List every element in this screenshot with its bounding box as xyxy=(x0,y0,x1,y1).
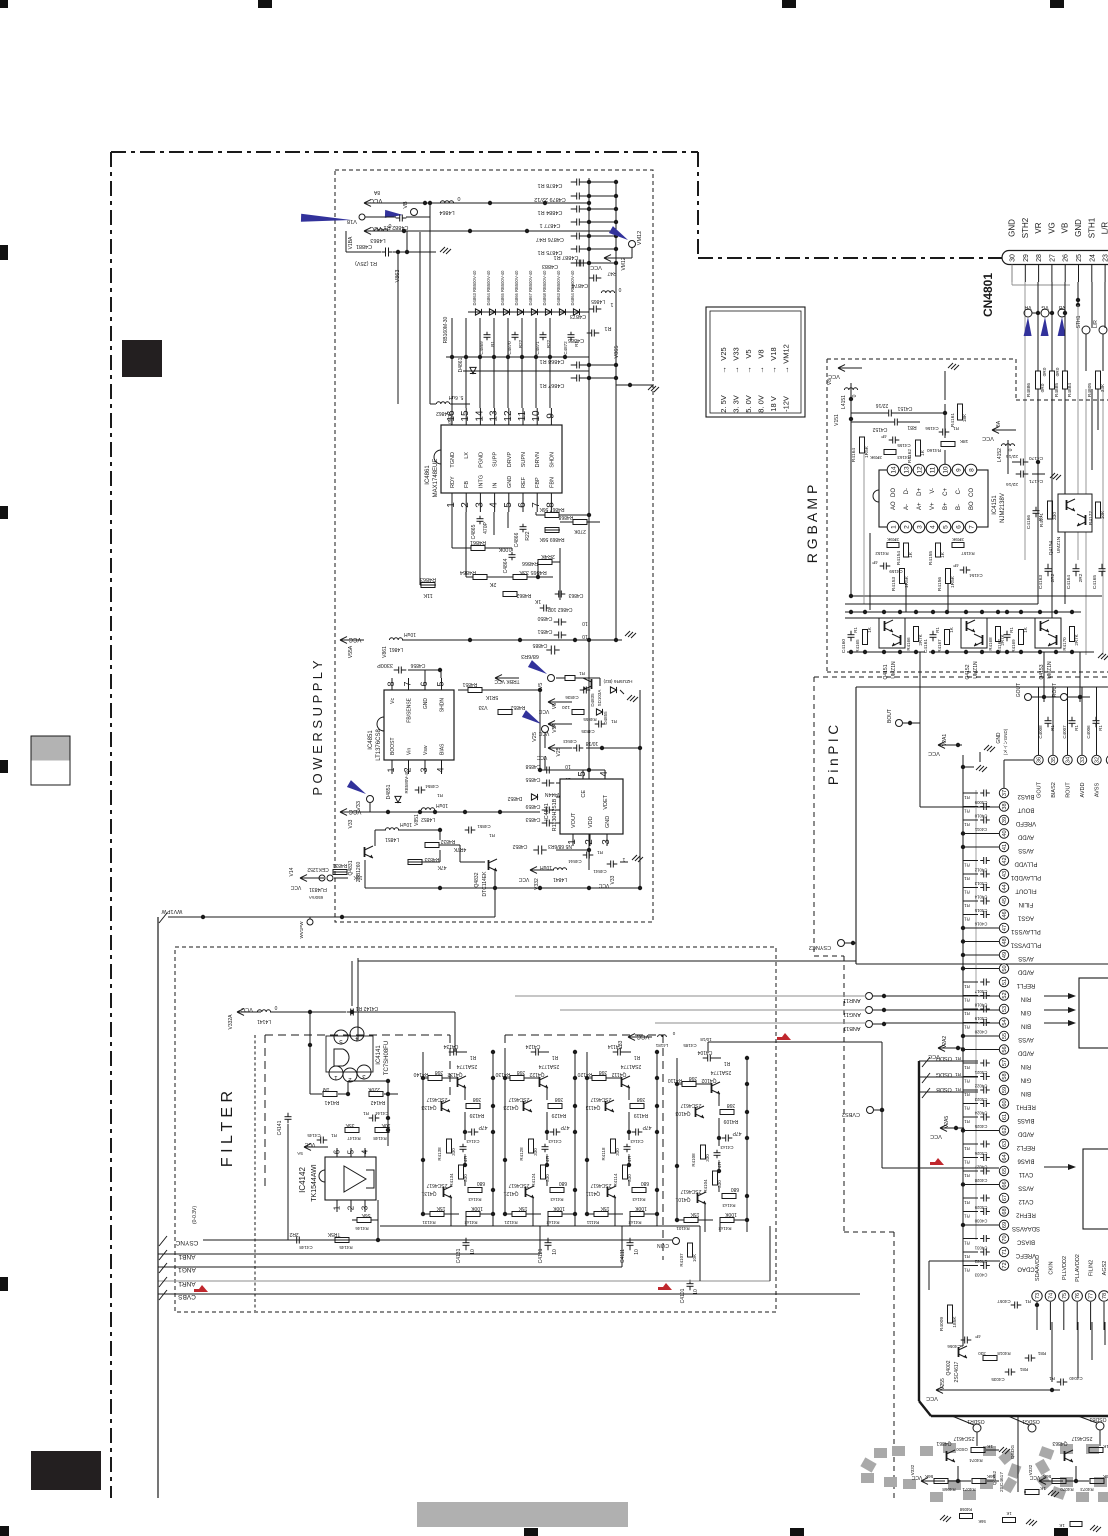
svg-text:R4114: R4114 xyxy=(613,1173,618,1186)
capacitor C4856 3300P xyxy=(398,667,400,674)
node VR xyxy=(1024,309,1032,317)
OSD signal taps xyxy=(919,1060,978,1062)
svg-text:FB: FB xyxy=(464,481,470,488)
svg-text:RIN: RIN xyxy=(1021,1063,1031,1069)
capacitor C4142 R1 xyxy=(350,1009,352,1016)
capacitor C4101 10 xyxy=(687,1283,694,1285)
gray highlight dashes cluster 2 xyxy=(1039,1446,1055,1460)
svg-text:D4855: D4855 xyxy=(603,711,608,725)
capacitor C4019 xyxy=(983,1006,985,1013)
svg-text:C4020: C4020 xyxy=(974,1030,987,1035)
svg-text:C4111: C4111 xyxy=(620,1249,626,1263)
svg-text:GND: GND xyxy=(423,698,429,710)
svg-text:R4110: R4110 xyxy=(668,1077,683,1083)
svg-text:62: 62 xyxy=(1002,1127,1008,1133)
top row pins 36-31 xyxy=(1034,755,1043,764)
svg-text:C4876 R47: C4876 R47 xyxy=(536,236,564,242)
svg-text:C4885: C4885 xyxy=(532,642,547,648)
resistor R4162 1K vertical xyxy=(916,440,921,456)
svg-text:TC7SH08FU: TC7SH08FU xyxy=(384,1041,390,1075)
resistor R4833 47K xyxy=(408,860,422,865)
IC4141 gate symbol xyxy=(334,1049,349,1066)
IC4151 pin 3 xyxy=(913,521,925,533)
svg-text:R4138: R4138 xyxy=(437,1147,442,1161)
svg-text:Q4121: Q4121 xyxy=(503,1190,518,1196)
junction row under diodes xyxy=(446,356,589,358)
resistor 3R9K R4157 xyxy=(952,543,964,548)
svg-text:SUPN: SUPN xyxy=(521,452,527,467)
flag marker blue 1 xyxy=(301,214,351,222)
resistor R4147 35K xyxy=(345,1128,359,1133)
svg-text:15K: 15K xyxy=(436,1205,446,1211)
svg-text:15K: 15K xyxy=(518,1205,528,1211)
svg-text:C4021: C4021 xyxy=(974,1070,987,1075)
IC4151 pin 14 xyxy=(887,464,899,476)
capacitor C4152 R81 xyxy=(894,419,896,426)
svg-text:2R7K: 2R7K xyxy=(1074,634,1079,645)
svg-text:3: 3 xyxy=(474,502,485,508)
svg-text:AVSS: AVSS xyxy=(1018,955,1034,961)
svg-text:34: 34 xyxy=(1066,757,1072,763)
signal tag CSYNC xyxy=(159,1236,167,1246)
svg-text:2R2: 2R2 xyxy=(1078,573,1084,582)
svg-text:R1: R1 xyxy=(964,795,970,800)
capacitor C4886 xyxy=(591,330,593,337)
svg-text:R1: R1 xyxy=(964,1025,970,1030)
svg-text:V8: V8 xyxy=(827,379,833,385)
IC4861 pin 4 xyxy=(494,493,496,512)
svg-text:C4844: C4844 xyxy=(568,859,582,864)
IC4151 pin 9 xyxy=(952,464,964,476)
pinp top rail xyxy=(856,686,1108,688)
svg-text:15K: 15K xyxy=(690,1211,700,1217)
svg-text:B-: B- xyxy=(956,504,962,510)
long lines RIN GIN BIN xyxy=(884,995,1000,997)
capacitor C4166 R1 xyxy=(1033,510,1040,512)
node L/R xyxy=(1099,326,1107,334)
capacitor C4141 xyxy=(285,1116,292,1118)
svg-text:2SA1774: 2SA1774 xyxy=(538,1063,559,1069)
svg-text:1K: 1K xyxy=(1039,1485,1046,1491)
svg-text:C4160: C4160 xyxy=(841,639,847,653)
svg-text:VCC: VCC xyxy=(369,197,382,203)
resistor R4155 1K vertical xyxy=(936,543,941,557)
svg-text:V332A: V332A xyxy=(228,1014,234,1030)
P-in-P IC pin 59 BIN xyxy=(999,1085,1008,1094)
svg-text:C4877 1: C4877 1 xyxy=(540,222,561,228)
svg-text:BIASC: BIASC xyxy=(1016,1239,1035,1245)
op-amp IC4861 MAX1748EUE body xyxy=(441,425,562,493)
svg-text:R81: R81 xyxy=(907,424,916,430)
svg-text:27: 27 xyxy=(1049,254,1056,262)
svg-text:C4040: C4040 xyxy=(1069,1376,1083,1381)
inductor L4151 0 xyxy=(844,388,857,390)
svg-text:3R9K: 3R9K xyxy=(951,536,964,542)
svg-text:0: 0 xyxy=(388,222,391,228)
svg-text:C4164: C4164 xyxy=(1066,575,1072,589)
svg-text:0: 0 xyxy=(1008,448,1014,451)
wire left drop xyxy=(429,217,431,404)
svg-text:V5: V5 xyxy=(538,683,544,690)
svg-text:C4859: C4859 xyxy=(525,803,540,809)
svg-text:VCC: VCC xyxy=(828,373,840,379)
svg-text:L4861: L4861 xyxy=(389,646,403,652)
svg-text:R1: R1 xyxy=(955,1087,961,1092)
svg-text:D4863 RB500V-40: D4863 RB500V-40 xyxy=(556,270,561,306)
svg-text:UMZ1N: UMZ1N xyxy=(1047,661,1053,679)
svg-text:2: 2 xyxy=(347,1205,356,1210)
svg-text:35: 35 xyxy=(1051,757,1057,763)
OSD output node OSDR1 xyxy=(973,1424,981,1432)
svg-text:C4166: C4166 xyxy=(1026,515,1032,529)
svg-text:GND: GND xyxy=(1008,219,1017,237)
svg-text:TRBK VCC: TRBK VCC xyxy=(494,678,520,684)
VCC V255 xyxy=(936,1389,960,1391)
svg-text:ANG1: ANG1 xyxy=(178,1266,196,1273)
svg-text:C4142 R1: C4142 R1 xyxy=(356,1005,379,1011)
svg-text:C4031: C4031 xyxy=(974,1246,987,1251)
svg-text:R4142: R4142 xyxy=(370,1099,385,1105)
svg-text:RDY: RDY xyxy=(450,476,456,488)
IC4151 pin 12 xyxy=(913,464,925,476)
resistor 1K R4169 vertical xyxy=(1019,630,1024,645)
IC4142 pin 6 xyxy=(336,1148,338,1157)
svg-text:C4853: C4853 xyxy=(525,816,540,822)
right rail of IC4851 section xyxy=(588,640,590,870)
ground rgb bottom xyxy=(1098,653,1108,660)
diode group D4863-D4868 RB500V-40 xyxy=(475,309,481,315)
svg-text:GOUT: GOUT xyxy=(1037,781,1043,798)
resistor R4009 185K vertical xyxy=(948,1305,953,1323)
resistor R4110 398 xyxy=(682,1082,696,1087)
svg-text:IC4141: IC4141 xyxy=(376,1045,382,1065)
capacitor 47P xyxy=(635,1129,637,1136)
resistor R4862 1K xyxy=(503,592,517,597)
wires below IC xyxy=(451,512,453,545)
svg-text:D4851: D4851 xyxy=(386,784,392,799)
svg-text:74: 74 xyxy=(1048,1293,1054,1299)
wires L4152 xyxy=(1007,440,1009,456)
svg-text:398: 398 xyxy=(517,1069,526,1075)
svg-text:470P: 470P xyxy=(483,522,489,534)
inductor L4852 10uH xyxy=(421,808,434,810)
registration mark left 4 xyxy=(0,1277,8,1291)
IC4151 pin 6 xyxy=(952,521,964,533)
svg-text:R4108: R4108 xyxy=(691,1153,696,1167)
svg-text:25: 25 xyxy=(1076,254,1083,262)
IC4151 pin 7 xyxy=(965,521,977,533)
svg-text:100K: 100K xyxy=(498,546,511,552)
svg-text:AVDD: AVDD xyxy=(1017,1131,1034,1137)
svg-text:VG: VG xyxy=(1047,222,1056,234)
capacitor C4144 R1 xyxy=(372,1115,374,1122)
svg-text:R4164: R4164 xyxy=(851,448,857,462)
svg-text:R4147: R4147 xyxy=(347,1136,361,1141)
svg-text:GND: GND xyxy=(507,476,513,488)
svg-text:R4864: R4864 xyxy=(460,569,476,575)
transistor Q4132 2SA1774 xyxy=(457,1077,459,1087)
svg-text:R4068: R4068 xyxy=(942,1487,956,1492)
VCC V5 entry xyxy=(548,701,572,703)
IC4851 pin 3 xyxy=(424,760,426,774)
svg-text:DO: DO xyxy=(891,488,897,497)
svg-text:C4858: C4858 xyxy=(525,763,540,769)
svg-text:R4855: R4855 xyxy=(583,717,597,722)
resistor R4153 1R5K vertical xyxy=(900,569,905,584)
svg-text:39: 39 xyxy=(1002,817,1008,823)
svg-text:R4862: R4862 xyxy=(516,592,531,598)
svg-text:C4154: C4154 xyxy=(969,573,983,578)
strip wires xyxy=(423,1077,428,1079)
P-in-P IC pin 55 AVSS xyxy=(999,1031,1008,1040)
svg-text:R4129: R4129 xyxy=(551,1112,566,1118)
IC4861 pin 5 xyxy=(508,493,510,512)
svg-text:2K: 2K xyxy=(489,581,496,587)
svg-text:D4864 RB500V-40: D4864 RB500V-40 xyxy=(570,270,575,306)
svg-text:V5: V5 xyxy=(552,703,558,709)
capacitor C4031 xyxy=(983,1235,985,1242)
capacitor C4104 R1 xyxy=(707,1055,709,1062)
svg-text:R4152: R4152 xyxy=(875,551,889,556)
svg-text:R1: R1 xyxy=(964,876,970,881)
svg-text:ANR1: ANR1 xyxy=(178,1280,196,1287)
VCC V8 entry xyxy=(838,367,862,369)
IC4142 opamp triangle xyxy=(344,1166,366,1192)
diagonals from bus xyxy=(952,1416,974,1425)
inductor L4181 xyxy=(658,1035,667,1037)
svg-text:5A: 5A xyxy=(297,1151,303,1156)
resistor 1K right xyxy=(1089,1448,1103,1453)
svg-text:0: 0 xyxy=(618,286,621,292)
svg-text:→: → xyxy=(719,366,728,374)
svg-text:2R2: 2R2 xyxy=(1050,573,1056,582)
strip wires xyxy=(505,1077,510,1079)
outer dash-dot frame to connector xyxy=(698,257,1002,259)
svg-text:IC4151: IC4151 xyxy=(992,495,998,515)
svg-text:3R9K: 3R9K xyxy=(869,454,882,460)
svg-text:C4015: C4015 xyxy=(974,908,987,913)
IC4851 pin 5 xyxy=(441,678,443,690)
svg-text:10uH: 10uH xyxy=(540,864,552,870)
inductor L4841 10uH xyxy=(553,868,566,870)
svg-text:8A: 8A xyxy=(373,189,380,195)
svg-text:R1: R1 xyxy=(611,719,617,724)
svg-text:C4131: C4131 xyxy=(456,1248,462,1263)
transistor Q4133 2SC4617 xyxy=(441,1101,443,1111)
capacitor C4159 4P xyxy=(883,563,885,570)
svg-text:R4120: R4120 xyxy=(577,1071,592,1077)
P-in-P IC pin 64 BIAS6 xyxy=(999,1153,1008,1162)
capacitor C4027 xyxy=(983,1154,985,1161)
svg-text:V2A5: V2A5 xyxy=(944,1116,950,1128)
transistor Q4103 2SC4617 xyxy=(695,1107,697,1117)
svg-text:R1: R1 xyxy=(1074,725,1079,731)
resistor R4886 0R0 xyxy=(1036,371,1041,389)
svg-text:6: 6 xyxy=(333,1149,342,1154)
svg-text:D4863 RB500V-40: D4863 RB500V-40 xyxy=(472,270,477,306)
svg-text:DRVN: DRVN xyxy=(535,452,541,468)
op-amp IC4151 NJM2138V body xyxy=(879,470,988,527)
P-in-P IC pin 73 SDAAVDD xyxy=(1032,1291,1042,1301)
IC4861 pin 3 xyxy=(479,493,481,512)
svg-text:BIAS5: BIAS5 xyxy=(1017,1117,1035,1123)
svg-text:1K: 1K xyxy=(1059,1523,1065,1528)
svg-text:VCC: VCC xyxy=(926,1395,938,1401)
svg-text:UMZ1N: UMZ1N xyxy=(1056,536,1062,553)
resistor 330 vertical 2 xyxy=(623,1165,628,1179)
P-in-P IC pin 74 CKIN xyxy=(1045,1291,1055,1301)
P-in-P IC pin 39 VREFD xyxy=(999,815,1008,824)
outer dash-dot frame step down xyxy=(697,152,699,258)
P-in-P IC pin 77 FILIN2 xyxy=(1085,1291,1095,1301)
svg-text:Vsw: Vsw xyxy=(423,745,429,755)
VCC V2A2 xyxy=(938,1047,962,1049)
svg-text:C41x3: C41x3 xyxy=(548,1139,562,1144)
svg-text:R4161: R4161 xyxy=(950,413,956,427)
IC4851 pin 2 xyxy=(408,760,410,774)
svg-text:47: 47 xyxy=(1002,925,1008,931)
wire v33 rail xyxy=(369,803,371,812)
svg-text:0R0: 0R0 xyxy=(1042,367,1048,376)
VCC 5A entry xyxy=(304,1146,328,1148)
svg-text:→: → xyxy=(744,366,753,374)
transistor Q4113 2SC4617 xyxy=(605,1101,607,1111)
svg-text:C4025: C4025 xyxy=(974,1124,987,1129)
svg-text:R4833: R4833 xyxy=(424,856,439,862)
svg-text:D4852: D4852 xyxy=(507,795,522,801)
svg-text:FILOUT: FILOUT xyxy=(1015,888,1037,894)
svg-text:L/R: L/R xyxy=(1093,320,1099,328)
IC box right edge lower xyxy=(1083,1149,1108,1229)
svg-text:V2A1: V2A1 xyxy=(942,734,948,746)
svg-text:R1: R1 xyxy=(363,1111,369,1116)
resistor 100K xyxy=(630,1212,644,1217)
resistor 680 xyxy=(722,1194,736,1199)
svg-text:CV12: CV12 xyxy=(1018,1198,1034,1204)
svg-text:15: 15 xyxy=(460,410,471,422)
node V33 xyxy=(367,796,374,803)
capacitor C4009 xyxy=(983,790,985,797)
signal tag ANG1 xyxy=(159,1263,167,1273)
resistor 1K R4074 xyxy=(971,1448,985,1453)
resistor 1K R4165 vertical xyxy=(863,630,868,645)
svg-text:PLLVDD2: PLLVDD2 xyxy=(1062,1256,1068,1280)
ground top of chain xyxy=(961,765,965,769)
wire v1b rail xyxy=(365,216,396,218)
svg-text:24: 24 xyxy=(1089,254,1096,262)
svg-text:0: 0 xyxy=(274,1004,277,1010)
svg-text:VOUT: VOUT xyxy=(571,812,577,828)
svg-text:VCC: VCC xyxy=(636,1033,649,1039)
svg-text:10/18: 10/18 xyxy=(586,740,599,746)
svg-text:1: 1 xyxy=(333,1205,342,1210)
svg-text:68/6R3: 68/6R3 xyxy=(521,653,539,659)
resistor 2R7K R4168 vertical xyxy=(996,627,1001,642)
svg-text:6: 6 xyxy=(517,502,528,508)
IC4861 pin 7 xyxy=(536,493,538,512)
inner dashed sub-box xyxy=(265,1035,450,1190)
IC box right edge upper xyxy=(1079,978,1108,1048)
svg-text:65: 65 xyxy=(1002,1168,1008,1174)
capacitor C41x2 47P vertical xyxy=(460,1146,467,1148)
red flag on cvin line xyxy=(777,1033,791,1040)
transistor pack Q4152 UMZ1N body xyxy=(961,618,987,648)
svg-text:2SC4617: 2SC4617 xyxy=(426,1096,447,1102)
P-in-P IC pin 42 PLLVDD xyxy=(999,856,1008,865)
svg-text:10K: 10K xyxy=(692,1254,697,1262)
svg-text:51: 51 xyxy=(1002,979,1008,985)
svg-text:R4134: R4134 xyxy=(449,1173,454,1187)
bottom ground right xyxy=(1090,1525,1101,1532)
svg-text:AVSS: AVSS xyxy=(1095,783,1101,798)
capacitor C4156 R1 xyxy=(942,429,944,436)
VCC V25 entry xyxy=(548,747,572,749)
svg-text:D-: D- xyxy=(904,488,910,494)
svg-text:R4865 33K: R4865 33K xyxy=(519,569,547,575)
resistor R4140 398 xyxy=(428,1076,442,1081)
svg-text:AVDD: AVDD xyxy=(1080,783,1086,798)
svg-text:VCC: VCC xyxy=(930,1133,942,1139)
svg-text:V33: V33 xyxy=(618,1040,624,1049)
svg-text:R1: R1 xyxy=(964,863,970,868)
svg-text:V33: V33 xyxy=(732,347,741,360)
node CSYNC2 xyxy=(838,940,845,947)
svg-text:R4018: R4018 xyxy=(997,1351,1011,1356)
resistor R81 C4035b xyxy=(1028,1355,1030,1362)
svg-text:VM12: VM12 xyxy=(782,344,791,364)
resistor R4866 2R4K xyxy=(538,560,552,565)
capacitor C4030 xyxy=(983,1208,985,1215)
resistor R4171 330 vertical xyxy=(1048,501,1053,519)
capacitor C4882 xyxy=(399,215,401,222)
resistor R4885 0R0 xyxy=(1050,371,1055,389)
inner fine dashed vertical xyxy=(254,1035,256,1311)
svg-text:10uH: 10uH xyxy=(436,802,448,808)
svg-text:R4861: R4861 xyxy=(470,539,486,545)
svg-text:398: 398 xyxy=(555,1096,564,1102)
svg-text:C4843: C4843 xyxy=(563,739,577,744)
svg-text:R1: R1 xyxy=(964,1241,970,1246)
ground q4861 xyxy=(999,1447,1010,1454)
svg-text:R1: R1 xyxy=(964,1268,970,1273)
svg-text:V33: V33 xyxy=(478,704,487,710)
resistor 2R7K R41610 vertical xyxy=(1070,627,1075,642)
svg-text:PLLDVSS1: PLLDVSS1 xyxy=(1010,942,1041,948)
svg-text:D4867 RB500V-40: D4867 RB500V-40 xyxy=(528,270,533,306)
svg-text:100K: 100K xyxy=(553,1205,565,1211)
fuse FU4831 CEK1252 xyxy=(319,875,325,881)
svg-text:10: 10 xyxy=(582,633,588,639)
svg-text:R1: R1 xyxy=(964,809,970,814)
capacitor C4162 R1 xyxy=(1004,634,1011,636)
svg-text:A+: A+ xyxy=(917,502,923,510)
transistor pack Q4151 UMZ1N body xyxy=(879,618,905,648)
gray highlight dashes cluster 1 xyxy=(874,1448,887,1458)
svg-text:C4006: C4006 xyxy=(1086,725,1091,739)
svg-text:1: 1 xyxy=(567,839,578,845)
svg-text:-12V: -12V xyxy=(782,396,791,412)
svg-text:398: 398 xyxy=(727,1102,736,1108)
IC4151 pin 5 xyxy=(939,521,951,533)
resistor R1 V5 xyxy=(565,676,575,681)
svg-text:330: 330 xyxy=(451,1148,456,1156)
svg-text:C4010: C4010 xyxy=(974,814,987,819)
capacitor 47P xyxy=(725,1135,727,1142)
svg-text:CDAO: CDAO xyxy=(1017,1266,1035,1272)
svg-text:330: 330 xyxy=(1052,512,1058,520)
svg-text:R1: R1 xyxy=(964,998,970,1003)
IC4841 pin 1 xyxy=(572,834,574,846)
